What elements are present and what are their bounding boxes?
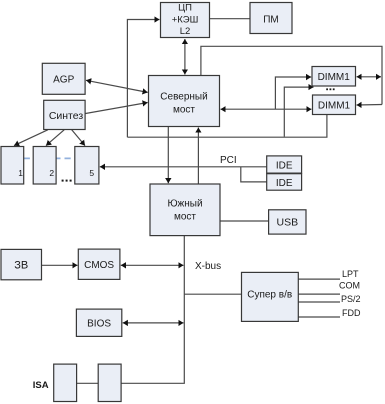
block USB (269, 210, 306, 234)
wire branch to DIMM1 (arrow into DIMM1) (275, 77, 311, 109)
svg-text:X-bus: X-bus (195, 261, 221, 272)
wire AGP-NorthBridge (double arrow) (86, 80, 148, 92)
wire PCI bus from slot5 to IDE (100, 166, 267, 168)
svg-text:IDE: IDE (276, 178, 293, 189)
wire Super IO COM out (298, 293, 340, 295)
wire ISA box connector (77, 382, 99, 384)
block IDE top (267, 156, 302, 173)
svg-text:Северный: Северный (160, 92, 207, 103)
dots between DIMMs (326, 88, 334, 90)
svg-text:2: 2 (49, 168, 54, 178)
svg-text:AGP: AGP (53, 75, 74, 86)
block BIOS (76, 309, 121, 336)
svg-text:PS/2: PS/2 (341, 294, 361, 304)
wire X-bus vertical down to ISA (122, 236, 185, 384)
block PM (250, 3, 292, 34)
wire DIMM2 to right vertical (arrow into DIMM2) (357, 104, 383, 107)
wire Super IO PS2 out (298, 301, 340, 303)
block Super IO (242, 272, 299, 321)
wire Super IO LPT out (298, 278, 340, 280)
svg-text:USB: USB (277, 217, 299, 229)
wire DIMM1 to right vertical (double arrow) (357, 76, 382, 78)
svg-text:LPT: LPT (342, 269, 359, 279)
svg-text:5: 5 (89, 168, 94, 178)
wire IDE riser to lower IDE (241, 167, 267, 182)
block South bridge (150, 184, 220, 236)
wire Super IO FDD out (298, 316, 340, 318)
block CPU with L2 cache (161, 3, 210, 38)
svg-text:ПМ: ПМ (263, 14, 279, 25)
wire ZV to CMOS (arrow) (42, 264, 78, 266)
block ISA slot 1 (54, 364, 77, 401)
wire NorthBridge to SouthBridge (down arrow) (167, 127, 169, 183)
wire NorthBridge top loop over to right vertical (201, 46, 382, 104)
block North bridge (149, 76, 220, 127)
wire Sintez to slot 2 (46, 130, 64, 146)
wire SouthBridge to NorthBridge (up arrow) (197, 128, 199, 185)
svg-text:DIMM1: DIMM1 (318, 101, 351, 112)
wire SouthBridge to USB (220, 220, 269, 222)
svg-text:ЗВ: ЗВ (14, 260, 28, 272)
wire X-bus to Super IO (184, 293, 241, 295)
wire Sintez to NorthBridge (arrow into bridge) (86, 103, 148, 114)
wire Sintez to slot 5 (72, 130, 85, 146)
block ZV (sound) (1, 249, 42, 279)
svg-text:1: 1 (18, 168, 23, 178)
wire Sintez to slot 1 (14, 130, 48, 146)
block slot 1 (1, 147, 24, 185)
svg-text:+КЭШ: +КЭШ (172, 15, 199, 26)
svg-text:ISA: ISA (33, 380, 49, 391)
svg-text:BIOS: BIOS (87, 319, 111, 330)
svg-text:мост: мост (174, 212, 196, 223)
svg-text:Синтез: Синтез (49, 110, 84, 122)
block ISA slot 2 (98, 364, 121, 401)
svg-text:CMOS: CMOS (84, 260, 114, 271)
wire memory bus loop to CPU left (arrow into CPU) (127, 20, 159, 138)
wire CMOS to X-bus (double arrow) (121, 264, 184, 266)
svg-text:PCI: PCI (220, 155, 237, 166)
svg-text:IDE: IDE (276, 161, 293, 172)
block DIMM1 top (312, 67, 356, 87)
wire NorthBridge-DIMM2 memory bus (double arrow) (221, 108, 312, 110)
dots between slots (62, 180, 72, 182)
svg-text:COM: COM (339, 281, 360, 291)
wire branch to further DIMMs (arrow toward dots) (284, 87, 313, 137)
svg-text:Супер в/в: Супер в/в (247, 290, 292, 301)
wire BIOS to X-bus (double arrow) (123, 322, 184, 324)
wire long memory bus line L1 (127, 115, 327, 137)
block DIMM1 bottom (313, 95, 356, 115)
svg-text:L2: L2 (180, 26, 191, 37)
svg-text:Южный: Южный (167, 199, 202, 210)
wire CPU-NorthBridge front side bus (double arrow) (184, 39, 186, 75)
block slot 2 (33, 147, 56, 185)
block Sintez (44, 100, 85, 129)
block CMOS (78, 249, 120, 279)
wire CPU to PM (210, 18, 251, 20)
svg-text:мост: мост (173, 105, 195, 116)
svg-text:DIMM1: DIMM1 (318, 72, 351, 83)
wire dashed slot chain (24, 157, 75, 159)
block slot 5 (75, 147, 99, 185)
block AGP (42, 63, 85, 94)
block IDE bottom (267, 174, 302, 191)
svg-text:FDD: FDD (342, 308, 361, 318)
svg-text:ЦП: ЦП (178, 3, 192, 14)
